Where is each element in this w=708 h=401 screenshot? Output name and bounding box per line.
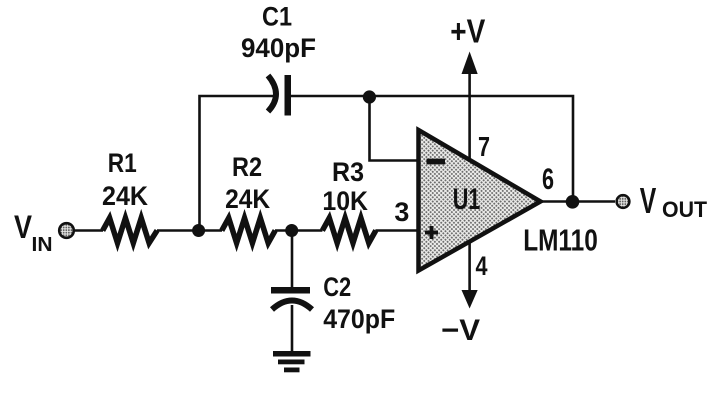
op-amp noninverting input plus sign	[425, 226, 438, 239]
svg-text:24K: 24K	[225, 184, 270, 214]
capacitor C1	[268, 75, 291, 116]
svg-text:4: 4	[476, 251, 488, 281]
svg-text:V: V	[14, 209, 33, 245]
op-amp U1	[419, 130, 541, 271]
wire +V supply to pin 7	[468, 68, 471, 161]
svg-text:IN: IN	[32, 234, 53, 256]
svg-text:R2: R2	[232, 152, 262, 182]
terminal V_IN	[59, 223, 74, 238]
wire C2 to ground	[291, 305, 294, 352]
svg-text:3: 3	[394, 197, 409, 227]
wire top feedback right segment	[291, 96, 573, 202]
wire R3 to noninverting input	[375, 229, 419, 232]
resistor R3	[322, 218, 375, 243]
svg-text:R3: R3	[332, 157, 364, 187]
label V_IN	[14, 209, 53, 256]
svg-text:R1: R1	[108, 148, 137, 178]
resistor R2	[222, 218, 275, 243]
svg-text:10K: 10K	[322, 186, 368, 216]
svg-text:+V: +V	[450, 13, 485, 50]
svg-text:7: 7	[478, 131, 490, 162]
junction dot at C1 / inverting-input branch	[363, 90, 376, 103]
svg-text:C2: C2	[323, 272, 351, 302]
node A junction dot	[192, 224, 205, 237]
wire input to R1	[75, 229, 104, 232]
svg-text:OUT: OUT	[662, 197, 708, 222]
svg-text:940pF: 940pF	[241, 33, 316, 63]
svg-text:U1: U1	[453, 183, 481, 216]
wire -V supply pin 4	[468, 242, 471, 296]
op-amp inverting input minus sign	[427, 159, 446, 165]
arrowhead +V	[462, 52, 478, 75]
wire node B to C2	[291, 231, 294, 289]
label V_OUT	[640, 180, 708, 222]
junction dot output/feedback	[566, 195, 580, 209]
svg-text:C1: C1	[262, 2, 292, 32]
ground	[273, 351, 311, 372]
svg-text:V: V	[640, 180, 657, 221]
wire to inverting input	[370, 96, 420, 161]
svg-text:LM110: LM110	[523, 223, 598, 258]
arrowhead -V	[462, 290, 478, 309]
capacitor C2	[271, 287, 312, 310]
svg-text:24K: 24K	[102, 181, 148, 211]
svg-text:−V: −V	[441, 314, 480, 347]
wire top feedback left segment	[200, 96, 279, 231]
resistor R1	[103, 218, 157, 243]
wire output	[541, 200, 616, 203]
svg-text:470pF: 470pF	[323, 304, 395, 334]
wire R2 to R3	[275, 229, 322, 232]
terminal V_OUT	[617, 195, 630, 208]
wire R1 to R2	[157, 229, 222, 232]
node B junction dot	[285, 224, 298, 237]
svg-text:6: 6	[542, 163, 554, 196]
